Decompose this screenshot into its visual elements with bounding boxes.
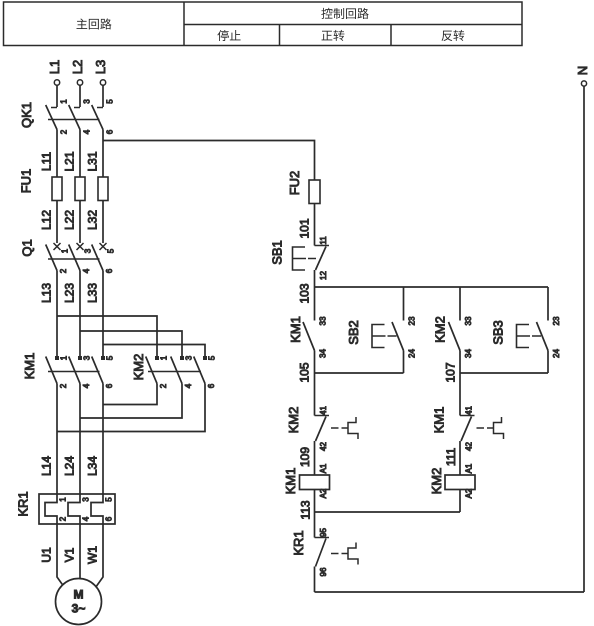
- svg-text:L34: L34: [86, 456, 100, 476]
- svg-text:L2: L2: [70, 60, 85, 74]
- header table: [4, 2, 523, 46]
- wire KR1 to N bus: [314, 567, 316, 593]
- thermal relay KR1 heater 1: [45, 494, 68, 524]
- contactor KM1 main pole 3: [92, 355, 115, 388]
- fuse FU2: [287, 171, 320, 204]
- svg-text:A1: A1: [465, 463, 474, 473]
- svg-text:KM2: KM2: [433, 316, 448, 343]
- svg-text:23: 23: [408, 316, 417, 325]
- svg-text:6: 6: [105, 268, 114, 273]
- svg-text:3: 3: [84, 248, 93, 253]
- svg-text:6: 6: [207, 383, 216, 388]
- svg-text:L23: L23: [63, 283, 77, 303]
- svg-text:KM2: KM2: [286, 407, 301, 434]
- thermal relay KR1 heater 2: [68, 494, 91, 524]
- terminal L1: [47, 60, 62, 107]
- svg-text:5: 5: [107, 248, 116, 253]
- svg-text:2: 2: [59, 516, 68, 521]
- header label: forward: [322, 30, 345, 41]
- contactor KM1 aux contact (hold, NO): [288, 287, 328, 373]
- svg-text:5: 5: [208, 355, 217, 360]
- wire L23 segment: [79, 271, 81, 357]
- wire SB1 to node 103: [314, 270, 316, 287]
- wire to motor U: [57, 524, 65, 588]
- coil KM2: [429, 441, 475, 512]
- svg-text:3: 3: [83, 355, 92, 360]
- svg-text:L11: L11: [40, 152, 54, 171]
- svg-text:L21: L21: [63, 151, 77, 171]
- svg-text:KR1: KR1: [291, 530, 306, 555]
- svg-text:L14: L14: [40, 456, 54, 476]
- svg-text:101: 101: [298, 218, 312, 238]
- svg-text:34: 34: [464, 349, 473, 358]
- svg-text:105: 105: [298, 362, 312, 382]
- breaker Q1 pole 3: [92, 243, 116, 273]
- wire FU2 to SB1: [314, 204, 316, 246]
- svg-text:FU2: FU2: [287, 171, 302, 196]
- terminal L3: [93, 60, 108, 107]
- thermal relay KR1 box: [39, 494, 115, 524]
- svg-text:4: 4: [82, 383, 91, 388]
- fuse FU1 pole 2: [75, 177, 85, 201]
- svg-text:4: 4: [82, 268, 91, 273]
- svg-text:N: N: [575, 66, 590, 75]
- svg-text:KM2: KM2: [429, 468, 444, 495]
- svg-text:4: 4: [82, 516, 91, 521]
- svg-text:QK1: QK1: [19, 102, 34, 128]
- svg-text:L13: L13: [40, 283, 54, 303]
- svg-text:6: 6: [106, 129, 115, 134]
- svg-text:5: 5: [105, 497, 114, 502]
- coil KM1: [283, 441, 330, 512]
- wire L24 segment: [79, 384, 81, 495]
- wire L31 segment: [102, 130, 104, 178]
- svg-text:41: 41: [465, 406, 474, 415]
- svg-text:L12: L12: [40, 210, 54, 230]
- svg-text:96: 96: [319, 567, 328, 576]
- wire L22 segment: [79, 201, 81, 244]
- svg-text:SB1: SB1: [270, 240, 285, 265]
- contactor KM1 main pole 2: [69, 355, 92, 388]
- svg-text:3: 3: [185, 355, 194, 360]
- svg-text:Q1: Q1: [20, 239, 35, 256]
- wire bus 103: [315, 286, 549, 288]
- wire L34 segment: [102, 384, 104, 495]
- wire L13 segment: [56, 271, 58, 357]
- wire KM2 pole2 output to phase 2: [80, 384, 182, 419]
- svg-text:L31: L31: [86, 151, 100, 171]
- wire tap phase 1 to KM2: [57, 316, 157, 356]
- svg-text:L3: L3: [93, 60, 108, 74]
- switch QK1 pole 3: [92, 99, 115, 135]
- wire tap phase 2 to KM2: [80, 331, 182, 356]
- push button SB2 (forward start, NO): [346, 287, 417, 373]
- svg-text:5: 5: [106, 99, 115, 104]
- wire KM2 pole1 output to phase 3: [103, 384, 157, 405]
- wire L12 segment: [56, 201, 58, 244]
- svg-text:3: 3: [83, 99, 92, 104]
- svg-text:3: 3: [82, 497, 91, 502]
- header label: stop: [217, 30, 240, 41]
- svg-text:L22: L22: [63, 210, 77, 230]
- fuse FU1 pole 1: [52, 177, 62, 201]
- svg-text:V1: V1: [63, 547, 77, 562]
- contactor KM2 linkage bar: [148, 371, 201, 373]
- svg-text:KM2: KM2: [131, 354, 146, 381]
- svg-text:12: 12: [319, 271, 328, 280]
- svg-text:1: 1: [60, 355, 69, 360]
- svg-text:KM1: KM1: [432, 407, 447, 434]
- svg-text:KM1: KM1: [288, 316, 303, 343]
- svg-text:L1: L1: [47, 60, 62, 74]
- svg-text:24: 24: [408, 349, 417, 358]
- wire L11 segment: [56, 130, 58, 178]
- header label: reverse: [442, 30, 465, 41]
- terminal N: [575, 66, 590, 86]
- svg-text:A1: A1: [319, 463, 328, 473]
- svg-text:5: 5: [106, 355, 115, 360]
- wire KM2 pole3 output to phase 1: [57, 384, 205, 432]
- svg-text:4: 4: [184, 383, 193, 388]
- svg-text:33: 33: [319, 316, 328, 325]
- wire join 105: [315, 372, 404, 374]
- svg-text:SB2: SB2: [346, 320, 361, 345]
- fuse FU1 pole 3: [98, 177, 108, 201]
- wire to motor V: [79, 524, 81, 579]
- svg-text:A2: A2: [465, 488, 474, 498]
- svg-text:113: 113: [299, 500, 313, 519]
- contactor KM2 main pole 2: [171, 355, 194, 388]
- thermal relay KR1 heater 3: [91, 494, 114, 524]
- contactor KM2 aux contact (hold, NO): [433, 287, 474, 373]
- svg-text:L33: L33: [86, 283, 100, 303]
- wire join 107: [460, 372, 548, 374]
- wire bottom N bus: [315, 591, 585, 593]
- svg-text:M: M: [74, 588, 84, 602]
- svg-text:2: 2: [59, 383, 68, 388]
- terminal L2: [70, 60, 85, 107]
- svg-text:107: 107: [444, 362, 458, 382]
- contactor KM1 main pole 1: [46, 355, 69, 388]
- wire N riser: [583, 86, 585, 592]
- switch QK1 pole 2: [69, 99, 92, 135]
- svg-text:6: 6: [105, 516, 114, 521]
- contactor KM1 linkage bar: [48, 371, 100, 373]
- svg-text:1: 1: [61, 248, 70, 253]
- svg-text:111: 111: [444, 448, 458, 467]
- push button SB1 (stop, NC): [270, 236, 330, 280]
- contactor KM1 interlock contact (NC): [432, 373, 504, 451]
- wire bus 113: [315, 511, 461, 513]
- header label: control circuit: [321, 8, 368, 19]
- header label: main circuit: [77, 18, 112, 29]
- svg-text:42: 42: [319, 442, 328, 451]
- wire to motor W: [96, 524, 104, 588]
- push button SB3 (reverse start, NO): [491, 287, 562, 373]
- svg-text:2: 2: [159, 383, 168, 388]
- svg-text:6: 6: [105, 383, 114, 388]
- svg-text:KM1: KM1: [283, 468, 298, 495]
- wire L32 segment: [102, 201, 104, 244]
- svg-text:L24: L24: [63, 456, 77, 476]
- contactor KM2 main pole 1: [146, 355, 169, 388]
- wire L21 segment: [79, 130, 81, 178]
- contactor KM2 interlock contact (NC): [286, 373, 358, 451]
- wire L33 segment: [102, 271, 104, 357]
- breaker Q1 pole 1: [46, 243, 70, 273]
- svg-text:1: 1: [59, 497, 68, 502]
- svg-text:KM1: KM1: [22, 353, 37, 380]
- svg-text:1: 1: [160, 355, 169, 360]
- motor M 3~: [56, 579, 102, 625]
- svg-text:4: 4: [83, 129, 92, 134]
- svg-text:23: 23: [552, 316, 561, 325]
- thermal relay KR1 contact (NC): [291, 512, 358, 576]
- svg-text:2: 2: [60, 129, 69, 134]
- switch QK1 pole 1: [46, 99, 69, 135]
- svg-text:2: 2: [59, 268, 68, 273]
- wire L14 segment: [56, 384, 58, 495]
- svg-text:24: 24: [552, 349, 561, 358]
- breaker Q1 pole 2: [69, 243, 93, 273]
- svg-text:103: 103: [298, 283, 312, 303]
- svg-text:42: 42: [465, 442, 474, 451]
- svg-text:U1: U1: [40, 547, 54, 563]
- svg-text:95: 95: [319, 528, 328, 537]
- svg-text:A2: A2: [319, 488, 328, 498]
- svg-text:109: 109: [298, 447, 312, 467]
- svg-text:1: 1: [60, 99, 69, 104]
- contactor KM2 main pole 3: [194, 355, 217, 388]
- svg-text:L32: L32: [86, 210, 100, 230]
- wire main tap to control circuit: [103, 141, 315, 181]
- wire tap phase 3 to KM2: [103, 345, 205, 357]
- svg-text:41: 41: [319, 406, 328, 415]
- svg-text:FU1: FU1: [19, 169, 34, 194]
- svg-text:34: 34: [319, 349, 328, 358]
- svg-text:3~: 3~: [72, 602, 86, 616]
- svg-text:33: 33: [464, 316, 473, 325]
- switch QK1 linkage bar: [48, 119, 100, 121]
- svg-text:W1: W1: [86, 546, 100, 564]
- svg-text:SB3: SB3: [491, 320, 506, 345]
- breaker Q1 linkage bar: [48, 258, 100, 260]
- svg-text:KR1: KR1: [16, 491, 31, 516]
- svg-text:11: 11: [319, 236, 328, 245]
